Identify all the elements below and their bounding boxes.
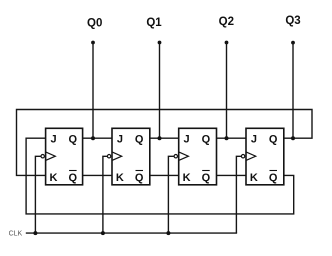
svg-text:Q1: Q1: [146, 17, 162, 29]
wire clock drop to U2: [103, 156, 108, 233]
svg-text:J: J: [50, 133, 56, 145]
svg-text:Q0: Q0: [87, 17, 102, 29]
flip-flop U2 pin K: [116, 172, 124, 184]
flip-flop U4 clock bubble: [241, 155, 244, 158]
svg-text:Q: Q: [202, 133, 211, 145]
wire Q2bar to K3: [150, 174, 179, 176]
junction CLK at U3: [166, 231, 170, 235]
node Q0 label: [87, 17, 102, 29]
wire Q0 vertical to terminal: [92, 43, 94, 139]
flip-flop U3 pin Q: [202, 133, 211, 145]
wire Q1bar to K2: [83, 174, 112, 176]
flip-flop U1 clock bubble: [41, 155, 44, 158]
svg-text:J: J: [251, 133, 257, 145]
svg-text:CLK: CLK: [9, 231, 23, 238]
wire Q1 vertical to terminal: [159, 43, 161, 139]
flip-flop U1 clock triangle: [46, 152, 56, 161]
flip-flop U3 pin K: [183, 172, 191, 184]
flip-flop U2 clock bubble: [107, 155, 110, 158]
junction net Q3: [291, 136, 295, 140]
flip-flop U4 body: [246, 128, 284, 185]
wire Q3out to J4 (net Q2): [217, 137, 247, 139]
wire clock drop to U3: [168, 156, 174, 233]
flip-flop U2 body: [112, 128, 150, 185]
svg-text:Q3: Q3: [285, 15, 300, 27]
terminal dot Q2: [225, 41, 229, 45]
flip-flop U1 pin J: [50, 133, 56, 145]
flip-flop U1 body: [46, 128, 83, 185]
wire CLK bus: [26, 232, 237, 234]
flip-flop U3 body: [179, 128, 217, 185]
wire Q2out to J3 (net Q1): [150, 137, 179, 139]
flip-flop U3 clock bubble: [174, 155, 177, 158]
flip-flop U4 pin Qbar: [269, 171, 278, 185]
svg-text:Q: Q: [69, 133, 78, 145]
svg-text:Q: Q: [269, 133, 278, 145]
junction net Q2: [225, 136, 229, 140]
junction CLK at U1: [33, 231, 37, 235]
svg-text:Q: Q: [135, 133, 144, 145]
wire feedback Q4bar to J1 (bottom loop): [26, 138, 294, 214]
flip-flop U1 pin Q: [69, 133, 78, 145]
node Q3 label: [285, 15, 300, 27]
node Q1 label: [146, 17, 162, 29]
svg-text:K: K: [116, 172, 124, 184]
flip-flop U1 pin K: [50, 172, 58, 184]
svg-text:Q: Q: [269, 172, 278, 184]
svg-text:K: K: [250, 172, 258, 184]
svg-text:Q2: Q2: [219, 16, 234, 28]
terminal dot Q3: [291, 41, 295, 45]
flip-flop U4 pin K: [250, 172, 258, 184]
flip-flop U2 pin J: [117, 133, 123, 145]
svg-text:J: J: [117, 133, 123, 145]
wire Q1out to J2 (net Q0): [83, 137, 112, 139]
junction net Q0: [91, 136, 95, 140]
wire Q3bar to K4: [217, 174, 247, 176]
flip-flop U4 clock triangle: [246, 152, 256, 161]
wire Q2 vertical to terminal: [226, 43, 228, 139]
flip-flop U2 pin Q: [135, 133, 144, 145]
flip-flop U2 pin Qbar: [135, 171, 144, 185]
flip-flop U2 clock triangle: [112, 152, 122, 161]
svg-text:Q: Q: [202, 172, 211, 184]
junction net Q1: [158, 136, 162, 140]
wire Q3 vertical to terminal: [292, 43, 294, 139]
flip-flop U3 pin J: [184, 133, 190, 145]
svg-text:Q: Q: [135, 172, 144, 184]
wire clock drop to U1: [35, 156, 41, 233]
svg-text:K: K: [50, 172, 58, 184]
svg-text:J: J: [184, 133, 190, 145]
wire clock drop to U4: [236, 156, 241, 233]
terminal dot Q0: [91, 41, 95, 45]
flip-flop U3 clock triangle: [179, 152, 189, 161]
junction CLK at U2: [101, 231, 105, 235]
terminal dot Q1: [158, 41, 162, 45]
wire feedback Q4 to K1 (top loop, net Q3): [17, 110, 313, 176]
flip-flop U4 pin J: [251, 133, 257, 145]
svg-text:K: K: [183, 172, 191, 184]
label CLK: [9, 231, 23, 238]
flip-flop U4 pin Q: [269, 133, 278, 145]
flip-flop U3 pin Qbar: [202, 171, 211, 185]
svg-text:Q: Q: [69, 172, 78, 184]
flip-flop U1 pin Qbar: [69, 171, 78, 185]
node Q2 label: [219, 16, 234, 28]
